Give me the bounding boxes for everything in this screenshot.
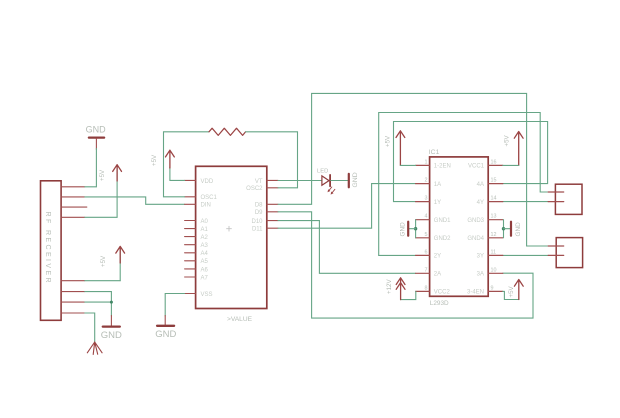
svg-text:VT: VT [255, 179, 263, 185]
wire net 2Y to motor1 upper [379, 113, 549, 256]
wire stub to right GND bar [504, 228, 511, 230]
svg-text:9: 9 [491, 285, 494, 291]
supply +12V arrow [386, 278, 405, 300]
pin IC1.11 3Y [477, 249, 503, 259]
svg-text:10: 10 [491, 267, 497, 273]
wire GND1-GND2 tie [415, 220, 417, 238]
svg-text:A4: A4 [201, 251, 209, 257]
wire pin16 to +5V [503, 164, 519, 166]
pin IC2 D9 [255, 210, 278, 216]
svg-text:D10: D10 [251, 219, 263, 225]
svg-text:D9: D9 [255, 210, 263, 216]
svg-text:4: 4 [425, 214, 428, 220]
wire net D10 to 2A [278, 221, 416, 274]
svg-text:A2: A2 [201, 235, 209, 241]
origin cross IC2 [227, 226, 232, 231]
pin IC1.7 2A [416, 267, 442, 277]
ground GND top [86, 125, 107, 150]
ground GND left-bottom [101, 316, 122, 342]
wire VCC2 to +12V [401, 291, 416, 299]
wire resistor to OSC2 [246, 132, 298, 188]
resistor R1 [209, 128, 246, 135]
svg-text:3: 3 [425, 196, 428, 202]
pin IC1.8 VCC2 [416, 285, 451, 295]
svg-text:12: 12 [491, 232, 497, 238]
svg-text:D11: D11 [252, 227, 263, 233]
pin IC2 VDD [185, 179, 214, 185]
pin IC1.9 3-4EN [467, 285, 503, 295]
pin IC2 OSC2 [246, 186, 278, 192]
svg-text:D8: D8 [255, 203, 263, 209]
pin J1.8 [61, 312, 85, 314]
pin IC1.3 1Y [416, 196, 442, 206]
pin J1.3 [61, 206, 87, 208]
ground GND right of IC1 [511, 222, 522, 237]
svg-text:3A: 3A [477, 272, 484, 278]
svg-text:GND3: GND3 [467, 218, 484, 224]
pin M1.2 [548, 201, 564, 203]
ground GND at LED [349, 172, 359, 187]
supply +5V arrow pin9 [508, 280, 523, 300]
svg-text:GND: GND [86, 125, 107, 135]
svg-text:7: 7 [425, 267, 428, 273]
pin IC1.4 GND1 [416, 214, 452, 224]
pin IC1.6 2Y [416, 249, 442, 259]
pin J1.6 [61, 291, 85, 293]
wire VT to LED [278, 180, 322, 182]
svg-text:DIN: DIN [201, 203, 211, 209]
junction dot left GND [414, 227, 417, 230]
svg-text:+5V: +5V [508, 285, 515, 297]
svg-text:3Y: 3Y [477, 254, 484, 260]
supply +5V arrow P1 [99, 165, 122, 218]
wire pin8 to earth [85, 313, 95, 342]
wire pin7 join [85, 301, 112, 303]
svg-text:2: 2 [425, 178, 428, 184]
svg-text:VCC1: VCC1 [468, 164, 485, 170]
svg-text:A3: A3 [201, 243, 209, 249]
wire LED to GND [331, 180, 349, 182]
pin IC1.16 VCC1 [468, 159, 503, 169]
pin IC2 VSS [185, 292, 213, 298]
svg-text:+5V: +5V [385, 135, 392, 147]
svg-text:VDD: VDD [201, 179, 214, 185]
wire pin5 to +5V [85, 280, 120, 282]
svg-text:+5V: +5V [100, 255, 107, 267]
wire OSC1 to resistor [164, 132, 210, 197]
wire pin2 to DIN [85, 197, 185, 204]
earth symbol [87, 342, 102, 354]
svg-text:1Y: 1Y [434, 200, 441, 206]
svg-text:15: 15 [491, 178, 497, 184]
supply +5V arrow P2 [100, 246, 125, 280]
pin IC2 D10 [251, 219, 278, 225]
pin M2.1 [548, 245, 564, 247]
svg-text:OSC2: OSC2 [246, 186, 263, 192]
supply +5V arrow pin16 [504, 132, 524, 166]
svg-text:16: 16 [491, 159, 497, 165]
svg-text:2Y: 2Y [434, 254, 441, 260]
wire pin1 to GND top [85, 149, 97, 187]
pin IC1.1 1-2EN [416, 159, 451, 169]
wire net D8 to motor2 upper [278, 93, 548, 246]
svg-text:4A: 4A [477, 182, 484, 188]
svg-text:OSC1: OSC1 [201, 195, 218, 201]
pin IC1.14 4Y [477, 196, 503, 206]
pin IC2 A0 [185, 219, 209, 225]
pin IC1.10 3A [477, 267, 503, 277]
ground GND left of IC1 [400, 222, 409, 237]
wire VDD to +5V [170, 179, 185, 181]
svg-text:+5V: +5V [151, 154, 158, 166]
svg-text:8: 8 [425, 285, 428, 291]
connector M1 motor1 [555, 184, 582, 214]
svg-text:A1: A1 [201, 227, 209, 233]
svg-text:>VALUE: >VALUE [227, 316, 253, 323]
wire pin4 to +5V [85, 216, 117, 218]
pin IC2 OSC1 [185, 195, 218, 201]
svg-text:5: 5 [425, 232, 428, 238]
supply +5V arrow VDD [151, 150, 174, 180]
junction dot pin6/pin7 [110, 301, 113, 304]
svg-text:1A: 1A [434, 182, 441, 188]
connector M2 motor2 [556, 238, 582, 268]
pin IC1.13 GND3 [467, 214, 502, 224]
pin J1.4 [61, 216, 85, 218]
svg-text:LED: LED [317, 169, 328, 175]
svg-text:4Y: 4Y [477, 200, 484, 206]
IC2 decoder HT12D body [196, 166, 267, 323]
svg-text:VCC2: VCC2 [434, 290, 451, 296]
svg-text:GND: GND [352, 172, 359, 187]
pin IC2 A5 [185, 259, 209, 265]
pin IC2 A1 [185, 227, 209, 233]
svg-text:6: 6 [425, 249, 428, 255]
pin IC1.15 4A [477, 178, 503, 188]
pin IC2 D11 [252, 227, 278, 233]
svg-text:+12V: +12V [386, 279, 393, 294]
svg-text:GND4: GND4 [467, 236, 484, 242]
wire net D9 to 3A [278, 212, 533, 318]
svg-text:A5: A5 [201, 259, 209, 265]
junction dot right GND [502, 227, 505, 230]
ground GND below VSS [155, 316, 176, 341]
wire pin1 to +5V [400, 164, 415, 166]
svg-text:A6: A6 [201, 267, 209, 273]
pin IC2 A3 [185, 243, 209, 249]
svg-text:L293D: L293D [430, 300, 449, 307]
wire pin6 down to GND [85, 292, 112, 316]
svg-text:2A: 2A [434, 272, 441, 278]
pin IC2 D8 [255, 203, 278, 209]
pin IC2 VT [255, 179, 278, 185]
svg-text:RF RECEIVER: RF RECEIVER [44, 212, 51, 285]
svg-text:11: 11 [491, 249, 497, 255]
svg-text:GND: GND [155, 329, 176, 340]
pin IC2 DIN [185, 203, 211, 209]
pin M1.1 [548, 191, 564, 193]
svg-text:GND: GND [101, 330, 122, 341]
pin IC2 A2 [185, 235, 209, 241]
svg-text:13: 13 [491, 214, 497, 220]
pin J1.2 [61, 196, 85, 198]
LED LED1 [317, 169, 335, 195]
svg-text:GND: GND [515, 222, 522, 237]
svg-text:14: 14 [491, 196, 497, 202]
wire stub to left GND bar [408, 228, 415, 230]
pin IC1.2 1A [416, 178, 442, 188]
pin IC1.5 GND2 [416, 232, 452, 242]
pin IC2 A6 [185, 267, 209, 273]
pin J1.5 [61, 280, 85, 282]
svg-text:1: 1 [425, 159, 428, 165]
svg-text:+5V: +5V [99, 169, 106, 181]
svg-text:A7: A7 [201, 275, 209, 281]
wire 3-4EN to +5V [503, 291, 519, 299]
wire VSS to GND [165, 294, 184, 317]
pin M2.2 [548, 254, 564, 256]
connector J1 RF RECEIVER [41, 181, 62, 320]
pin IC1.12 GND4 [467, 232, 502, 242]
svg-text:3-4EN: 3-4EN [467, 290, 484, 296]
pin IC2 A4 [185, 251, 209, 257]
svg-text:VSS: VSS [201, 292, 213, 298]
pin IC2 A7 [185, 275, 209, 281]
svg-text:1-2EN: 1-2EN [434, 164, 451, 170]
svg-text:GND: GND [400, 222, 407, 237]
svg-text:A0: A0 [201, 219, 209, 225]
svg-text:GND2: GND2 [434, 236, 451, 242]
svg-text:IC1: IC1 [429, 149, 440, 156]
IC1 L293D body [429, 149, 488, 307]
svg-text:+5V: +5V [504, 134, 511, 146]
wire net 4Y to motor1 lower [503, 201, 548, 203]
wire GND3-GND4 tie [503, 220, 505, 238]
pin J1.1 [61, 186, 85, 188]
wire net D11 to 1A [278, 184, 416, 229]
svg-text:GND1: GND1 [434, 218, 451, 224]
wire net 3Y to motor2 lower [503, 254, 548, 256]
pin J1.7 [61, 301, 85, 303]
wire net 1Y to 4A [394, 122, 548, 202]
supply +5V arrow pin1 [385, 131, 405, 166]
